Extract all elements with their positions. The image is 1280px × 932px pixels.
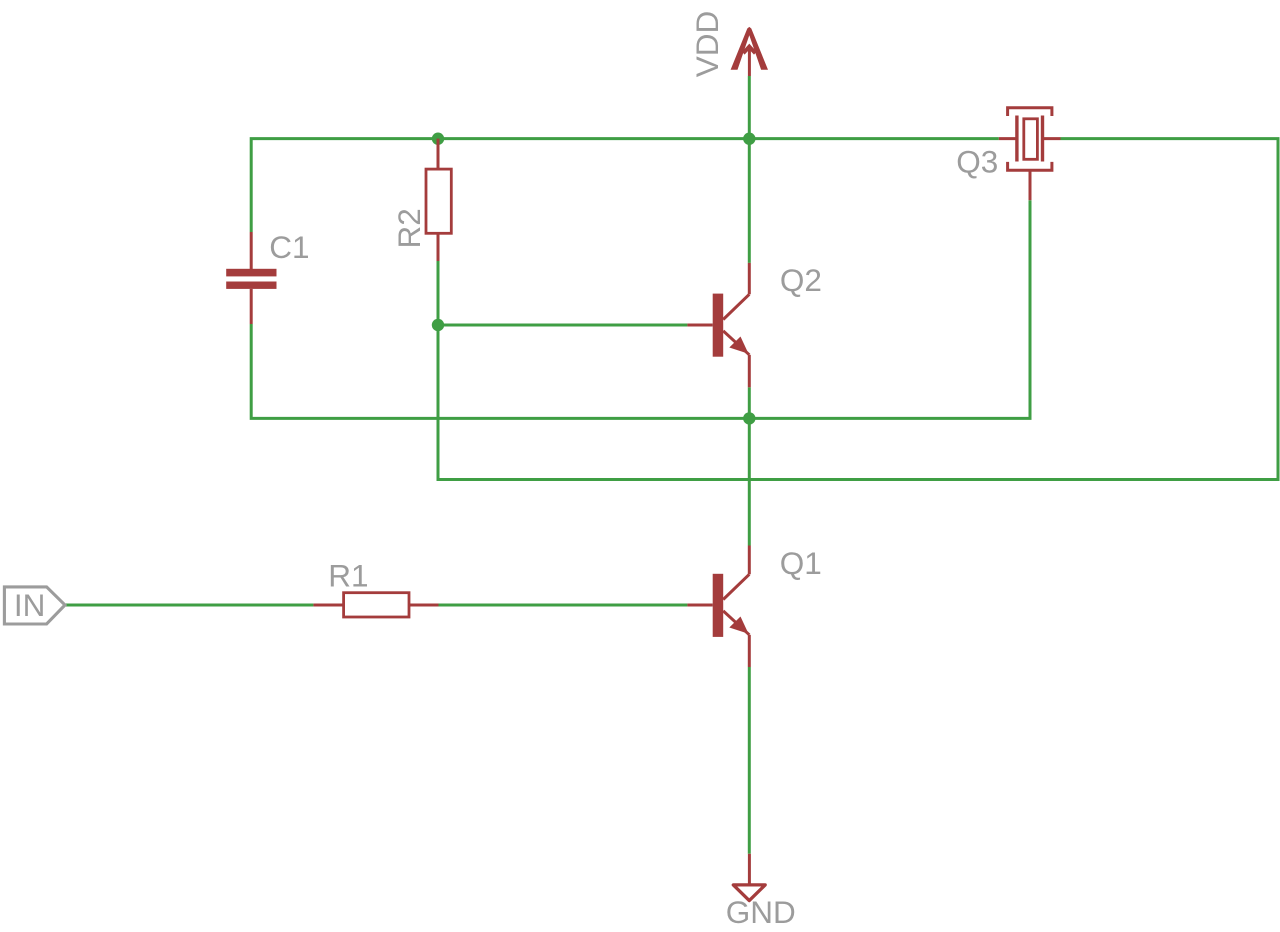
wire Q1 emitter to GND [748,667,751,854]
wire VDD stem green [748,76,751,139]
svg-text:IN: IN [14,587,46,623]
wire R1 to Q1 base [439,604,688,607]
wire IN to R1 [65,604,313,607]
svg-text:R2: R2 [391,208,427,248]
svg-text:Q2: Q2 [780,262,822,298]
junction node mid rail / Q2 emitter / Q1 collector [743,412,755,424]
junction node top rail / R2 [432,133,444,145]
wire Q2 emitter to mid rail [748,387,751,418]
svg-text:VDD: VDD [689,11,725,78]
resistor R2 [426,139,451,261]
wire mid rail (emitter net) [251,200,1030,418]
connector IN [4,587,65,624]
wire Q2 base net [438,324,687,327]
capacitor C1 [226,232,276,324]
transistor Q1 [687,546,749,668]
svg-text:C1: C1 [269,229,309,265]
wire Q2 collector to top rail [748,139,751,263]
svg-text:Q1: Q1 [780,545,822,581]
ground symbol GND [733,854,765,901]
transistor Q2 [687,263,749,387]
svg-text:GND: GND [726,894,796,930]
resistor R1 [313,593,438,617]
junction node Q2 base / R2 / feedback [432,319,444,331]
junction node top rail / VDD / Q2 collector [743,133,755,145]
wire mid rail to Q1 collector [748,418,751,545]
power symbol VDD [731,27,768,76]
svg-text:R1: R1 [328,557,368,593]
crystal Q3 [999,108,1061,200]
svg-text:Q3: Q3 [956,143,998,179]
wire R2 bottom to base junction [437,261,440,325]
wire top rail right segment to feedback loop [438,139,1278,480]
wire top rail left segment (VDD net) [251,139,999,232]
